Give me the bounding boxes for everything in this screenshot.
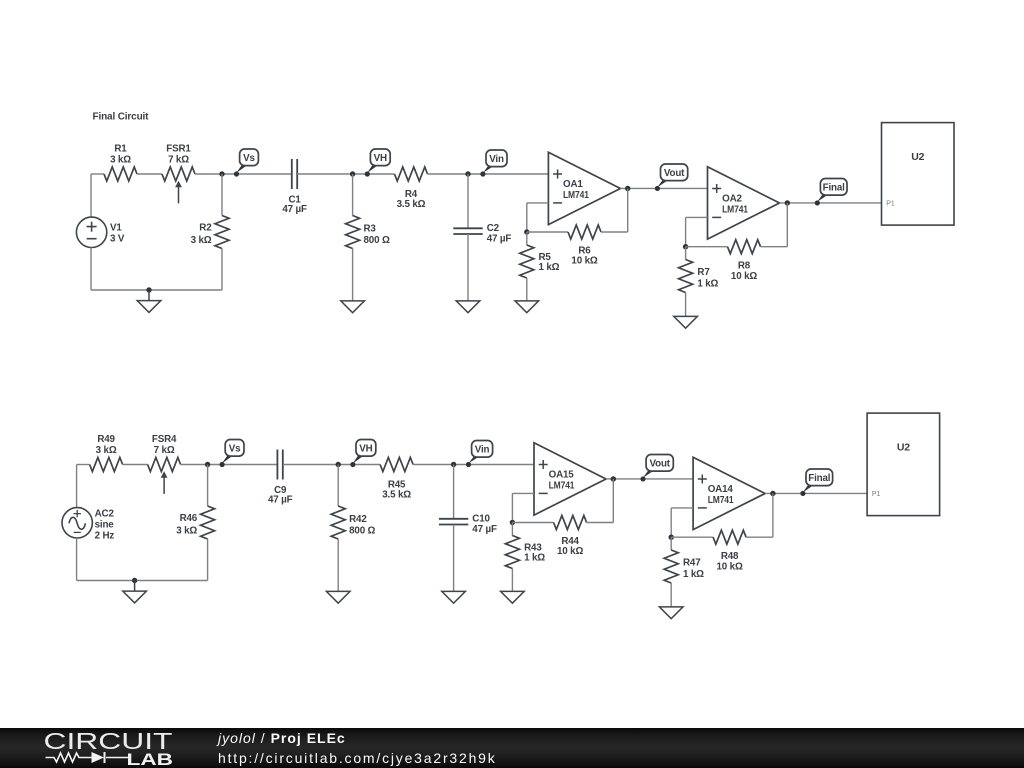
wire: R43 to ground <box>511 569 513 592</box>
svg-text:Vs: Vs <box>243 153 255 164</box>
svg-text:Vs: Vs <box>229 444 241 455</box>
node flag Vin (bottom) <box>467 456 481 466</box>
svg-text:7 kΩ: 7 kΩ <box>154 445 175 456</box>
source V1 <box>76 217 106 247</box>
wire: R48 to OA14 output <box>746 536 773 538</box>
junction at OA14 output <box>770 491 775 496</box>
IC box U2 <box>882 123 955 226</box>
wire: OA2 - input to feedback node <box>686 216 708 218</box>
svg-text:1 kΩ: 1 kΩ <box>683 569 704 580</box>
wire: bottom ground rail <box>91 289 222 291</box>
svg-text:Vout: Vout <box>649 459 670 470</box>
resistor R47 <box>664 550 678 583</box>
node flag Vout (top) <box>656 179 670 189</box>
junction at OA15 feedback node <box>510 520 515 525</box>
svg-text:R42: R42 <box>349 514 367 525</box>
wire: R4 to op-amp OA1 + input <box>428 173 549 175</box>
resistor R44 <box>554 516 587 530</box>
ground symbol (R3) <box>341 301 365 313</box>
wire: OA15 output to op-amp OA14 + input <box>606 478 693 480</box>
svg-text:LM741: LM741 <box>563 190 589 201</box>
resistor R46 <box>201 506 215 539</box>
wire: C9 to resistor R45 <box>283 464 380 466</box>
svg-text:P1: P1 <box>872 491 881 498</box>
wire: top of source V1 to main node <box>90 174 92 217</box>
resistor R3 <box>346 216 360 249</box>
wire: bottom of source AC2 to ground rail <box>76 538 78 581</box>
svg-text:R46: R46 <box>180 513 198 524</box>
resistor R2 <box>215 216 229 249</box>
resistor R49 <box>90 458 123 472</box>
svg-text:LM741: LM741 <box>722 204 748 215</box>
wire: R7 to ground <box>685 293 687 317</box>
junction at Vs node <box>219 171 224 176</box>
wire: OA1 output to op-amp OA2 + input <box>620 187 707 189</box>
wire: feedback node down to resistor R5 <box>526 232 528 245</box>
svg-text:R7: R7 <box>697 267 710 278</box>
wire: OA15 - input to feedback node <box>512 492 534 494</box>
svg-text:3.5 kΩ: 3.5 kΩ <box>382 489 411 500</box>
svg-text:800 Ω: 800 Ω <box>364 235 390 246</box>
wire: VH node down to resistor R3 <box>352 174 354 216</box>
junction on ground rail <box>132 578 137 583</box>
resistor R1 <box>104 167 137 181</box>
ground symbol (R47) <box>659 607 683 619</box>
svg-text:Final Circuit: Final Circuit <box>93 112 150 123</box>
svg-text:LM741: LM741 <box>549 480 575 491</box>
CircuitLab logo: resistor-diode glyph and LAB wordmark <box>46 753 129 762</box>
svg-text:FSR4: FSR4 <box>152 434 177 445</box>
svg-text:R2: R2 <box>199 222 212 233</box>
ground symbol (rail) <box>134 581 136 592</box>
svg-text:3 kΩ: 3 kΩ <box>191 235 212 246</box>
ground symbol (R5) <box>515 301 539 313</box>
svg-text:Vout: Vout <box>664 168 685 179</box>
svg-text:U2: U2 <box>911 151 924 163</box>
wire: Vs node down to resistor R46 <box>207 465 209 507</box>
svg-text:47 µF: 47 µF <box>487 234 512 245</box>
IC box U2 <box>867 413 940 515</box>
node flag Vs (bottom) <box>220 455 234 466</box>
svg-text:LAB: LAB <box>127 751 174 768</box>
svg-text:3 V: 3 V <box>110 234 125 245</box>
svg-text:U2: U2 <box>897 442 910 454</box>
wire: FSR1 to capacitor C1 <box>195 173 292 175</box>
junction at OA2 output <box>785 200 790 205</box>
svg-text:LM741: LM741 <box>708 495 734 506</box>
svg-text:Final: Final <box>823 183 846 194</box>
svg-text:47 µF: 47 µF <box>472 524 497 535</box>
svg-text:V1: V1 <box>110 222 122 233</box>
svg-text:7 kΩ: 7 kΩ <box>168 155 189 166</box>
wire: source to resistor R49 <box>77 464 90 466</box>
svg-text:OA1: OA1 <box>563 179 583 190</box>
svg-text:R49: R49 <box>97 434 115 445</box>
node flag Vs (top) <box>235 164 249 175</box>
wire: R6 to OA1 output <box>601 231 628 233</box>
svg-text:10 kΩ: 10 kΩ <box>731 271 757 282</box>
wire: OA14 output to U2 <box>765 492 867 494</box>
svg-text:3 kΩ: 3 kΩ <box>176 526 197 537</box>
node flag VH (top) <box>366 164 380 175</box>
resistor R45 <box>380 458 413 472</box>
node flag Final (bottom) <box>801 484 815 494</box>
svg-text:Vin: Vin <box>489 154 504 165</box>
svg-text:P1: P1 <box>886 201 895 208</box>
wire: Vin node down to capacitor C2 <box>467 174 469 228</box>
capacitor C9 <box>276 450 278 480</box>
wire: FSR4 to capacitor C9 <box>181 464 278 466</box>
ground symbol (R43) <box>501 591 525 603</box>
ground symbol (C10) <box>442 591 466 603</box>
wire: C10 to ground <box>453 525 455 592</box>
svg-text:AC2: AC2 <box>95 509 115 520</box>
svg-text:3 kΩ: 3 kΩ <box>96 445 117 456</box>
svg-text:VH: VH <box>374 153 387 164</box>
svg-text:1 kΩ: 1 kΩ <box>524 553 545 564</box>
svg-text:sine: sine <box>95 520 115 531</box>
wire: R45 to op-amp OA15 + input <box>413 464 534 466</box>
resistor R6 <box>568 225 601 239</box>
wire: R47 to ground <box>670 583 672 607</box>
wire: R49 to FSR4 <box>123 464 148 466</box>
wire: OA14 - input to feedback node <box>671 507 693 509</box>
wire: R44 to OA15 output <box>587 522 614 524</box>
node flag VH (bottom) <box>351 455 365 466</box>
source AC2 <box>62 508 92 538</box>
junction at OA14 feedback node <box>669 535 674 540</box>
junction at Vin node <box>465 171 470 176</box>
junction at VH node <box>350 171 355 176</box>
resistor R42 <box>331 506 345 539</box>
potentiometer FSR4 <box>148 458 181 472</box>
wire: Vs node down to resistor R2 <box>221 174 223 216</box>
svg-text:FSR1: FSR1 <box>166 144 191 155</box>
ground symbol (R42) <box>326 591 350 603</box>
svg-text:2 Hz: 2 Hz <box>95 531 115 542</box>
wire: C1 to resistor R4 <box>297 173 394 175</box>
wire: OA1 - input to feedback node <box>527 202 549 204</box>
wire: feedback node down to resistor R47 <box>670 537 672 550</box>
svg-text:R3: R3 <box>364 224 377 235</box>
node flag Vout (bottom) <box>641 470 655 480</box>
svg-text:3 kΩ: 3 kΩ <box>110 155 131 166</box>
resistor R8 <box>728 240 761 254</box>
footer title: jyolol / Proj ELEc <box>218 731 346 745</box>
junction at VH node <box>336 462 341 467</box>
svg-text:Vin: Vin <box>475 445 490 456</box>
capacitor C2 <box>453 227 482 229</box>
wire: R5 to ground <box>526 278 528 301</box>
ground symbol (R7) <box>674 316 698 328</box>
wire: R8 to OA2 output <box>761 246 788 248</box>
wire: feedback node to resistor R6 <box>527 231 568 233</box>
svg-text:800 Ω: 800 Ω <box>349 525 375 536</box>
junction at OA15 output <box>611 476 616 481</box>
svg-text:10 kΩ: 10 kΩ <box>557 546 583 557</box>
wire: R1 to FSR1 <box>137 173 162 175</box>
svg-text:VH: VH <box>359 444 372 455</box>
op-amp OA2 LM741 <box>708 167 780 239</box>
wire: C2 to ground <box>467 234 469 301</box>
node flag Final (top) <box>816 194 830 204</box>
junction at Vin node <box>451 462 456 467</box>
wire: R42 to ground <box>337 539 339 591</box>
ground symbol (C2) <box>456 301 480 313</box>
wire: R2 to ground rail <box>221 249 223 291</box>
resistor R5 <box>520 245 534 278</box>
junction at OA2 feedback node <box>683 244 688 249</box>
wire: VH node down to resistor R42 <box>337 465 339 507</box>
capacitor C1 <box>291 159 293 189</box>
svg-text:R8: R8 <box>738 260 751 271</box>
svg-text:3.5 kΩ: 3.5 kΩ <box>397 199 426 210</box>
potentiometer FSR1 <box>162 167 195 181</box>
resistor R7 <box>679 260 693 293</box>
wire: bottom ground rail <box>77 580 208 582</box>
wire: R46 to ground rail <box>207 539 209 581</box>
svg-text:47 µF: 47 µF <box>282 204 307 215</box>
capacitor C10 <box>439 518 468 520</box>
op-amp OA1 LM741 <box>548 152 620 224</box>
wire: OA2 output to U2 <box>780 202 882 204</box>
wire: feedback node down to resistor R43 <box>511 523 513 536</box>
node flag Vin (top) <box>481 165 495 175</box>
svg-text:R47: R47 <box>683 558 701 569</box>
wire: feedback node to resistor R48 <box>671 536 713 538</box>
svg-text:R48: R48 <box>721 551 739 562</box>
wire: feedback node down to resistor R7 <box>685 247 687 260</box>
wire: feedback node to resistor R8 <box>686 246 728 248</box>
footer url <box>218 751 497 765</box>
junction at Vs node <box>205 462 210 467</box>
svg-text:10 kΩ: 10 kΩ <box>571 255 597 266</box>
wire: Vin node down to capacitor C10 <box>453 465 455 519</box>
resistor R48 <box>713 530 746 544</box>
wire: source to resistor R1 <box>91 173 104 175</box>
junction on ground rail <box>146 287 151 292</box>
resistor R4 <box>395 167 428 181</box>
junction at OA1 feedback node <box>524 229 529 234</box>
op-amp OA15 LM741 <box>534 443 606 515</box>
wire: feedback node to resistor R44 <box>512 522 553 524</box>
ground symbol (rail) <box>148 290 150 301</box>
CircuitLab logo: CIRCUIT wordmark <box>0 728 200 768</box>
wire: top of source AC2 to main node <box>76 465 78 508</box>
svg-text:R1: R1 <box>114 144 127 155</box>
junction at OA1 output <box>625 186 630 191</box>
wire: bottom of source V1 to ground rail <box>90 248 92 291</box>
wire: R3 to ground <box>352 249 354 301</box>
op-amp OA14 LM741 <box>693 457 765 529</box>
svg-text:10 kΩ: 10 kΩ <box>717 561 743 572</box>
svg-text:47 µF: 47 µF <box>268 494 293 505</box>
svg-text:OA2: OA2 <box>722 194 742 205</box>
resistor R43 <box>505 536 519 569</box>
svg-text:OA15: OA15 <box>549 470 575 481</box>
svg-text:OA14: OA14 <box>708 484 734 495</box>
svg-text:Final: Final <box>808 473 831 484</box>
svg-text:1 kΩ: 1 kΩ <box>697 278 718 289</box>
svg-text:1 kΩ: 1 kΩ <box>539 262 560 273</box>
